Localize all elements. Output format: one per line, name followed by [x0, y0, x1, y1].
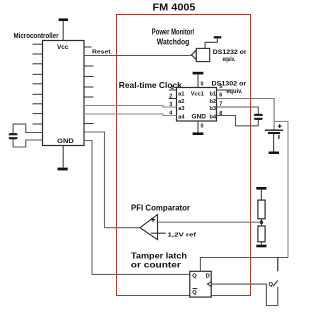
svg-text:Vcc: Vcc: [57, 44, 69, 51]
watchdog U2 DS1232 gate box: [196, 48, 209, 61]
wire U3 Vcc1 lead (pin 0): [197, 74, 199, 87]
wire R2 to ground: [260, 242, 262, 245]
U3 pin 5 stub: [217, 89, 232, 91]
wire comparator + input to divider node: [158, 221, 262, 223]
svg-text:a1: a1: [178, 91, 184, 97]
svg-text:Power Monitor/: Power Monitor/: [152, 27, 195, 37]
svg-text:GND: GND: [192, 114, 207, 120]
U5 clock triangle: [207, 282, 211, 287]
svg-text:DS1232 or: DS1232 or: [213, 50, 248, 56]
ground bar (U3 bottom): [193, 132, 204, 135]
wire U1 to flip-flop Q: [84, 141, 190, 275]
crystal Y1 wire (bottom lead to U1): [13, 139, 42, 147]
wire comparator output to U1: [84, 132, 140, 228]
battery BT1 bottom plate: [268, 132, 280, 134]
svg-text:b4: b4: [210, 114, 217, 120]
svg-text:Q: Q: [269, 282, 274, 288]
Qbar overline: [193, 288, 198, 290]
U3 pin 1 stub: [169, 89, 177, 91]
wire U2 power lead: [205, 38, 217, 48]
crystal Y1 wire (top lead to U1): [13, 124, 42, 133]
wire Vcc lead: [62, 21, 64, 41]
wire U1 to U3 pin 4: [84, 114, 177, 116]
wire rail to tamper switch top: [277, 258, 279, 272]
svg-text:PFI Comparator: PFI Comparator: [131, 203, 191, 213]
wire battery + rail to right side: [274, 121, 288, 257]
tamper switch blade: [273, 281, 278, 287]
ground bar (U1): [58, 168, 68, 171]
svg-text:1,2V ref: 1,2V ref: [168, 232, 197, 238]
power bar Vcc (U1): [59, 18, 68, 21]
power bar (divider Vcc): [256, 187, 266, 190]
wire U5 D input to battery rail: [200, 258, 288, 272]
svg-text:FM 4005: FM 4005: [153, 3, 196, 14]
wire R1 to node: [260, 219, 262, 226]
svg-text:a4: a4: [178, 114, 185, 120]
battery BT1 top plate: [265, 130, 283, 131]
flip-flop U5 box: [190, 271, 211, 297]
wire Reset (U1 to U2): [84, 55, 192, 57]
wire U5 clock to tamper switch: [211, 284, 278, 305]
svg-text:0: 0: [201, 123, 204, 129]
svg-text:b1: b1: [210, 91, 217, 97]
svg-text:b3: b3: [210, 106, 217, 112]
power bar (U2): [214, 36, 222, 38]
power bar (U3 top): [193, 72, 204, 75]
svg-text:Reset: Reset: [92, 50, 111, 56]
wire U3 pin 7 to crystal Y2: [217, 107, 259, 114]
wire GND lead: [62, 146, 64, 168]
svg-text:or counter: or counter: [131, 259, 182, 269]
wire U3 GND lead (pin 0): [197, 121, 199, 132]
svg-text:a3: a3: [178, 106, 184, 112]
battery BT1 plus sign: [278, 124, 282, 128]
svg-text:Q: Q: [192, 290, 197, 296]
svg-text:5: 5: [219, 84, 222, 90]
U3 pin 2 stub: [169, 98, 177, 100]
comparator U4 triangle: [140, 215, 158, 240]
svg-text:D: D: [206, 274, 210, 280]
svg-text:DS1302 or: DS1302 or: [212, 81, 247, 87]
crystal Y1 body: [8, 133, 19, 139]
comparator minus input line: [151, 232, 166, 234]
resistor R2: [258, 226, 265, 242]
wire U1 to U3 pin 3: [84, 106, 177, 108]
svg-text:1: 1: [171, 85, 174, 91]
wire divider Vcc lead: [260, 190, 262, 201]
resistor R1: [258, 200, 265, 219]
crystal Y2 body: [253, 114, 264, 120]
svg-text:equiv.: equiv.: [223, 57, 236, 63]
wire U3 pin 6 to battery +: [217, 99, 275, 130]
ground bar (battery): [269, 152, 279, 155]
svg-text:7: 7: [219, 101, 222, 107]
wire battery to ground: [273, 134, 275, 152]
RTC U3 box: [177, 88, 217, 122]
battery BT1 minus tick: [278, 135, 279, 139]
wire U3 pin 8 to crystal Y2: [217, 116, 259, 126]
svg-text:Microcontroller: Microcontroller: [14, 33, 59, 40]
comparator plus marking: [151, 218, 155, 222]
U1 right pin stubs: [84, 47, 94, 124]
microcontroller U1 box: [43, 41, 85, 146]
U1 left pin stubs: [33, 44, 43, 124]
svg-text:a2: a2: [178, 99, 184, 105]
svg-text:GND: GND: [57, 138, 74, 145]
svg-text:b2: b2: [210, 99, 217, 105]
node junction dot: [260, 221, 263, 224]
svg-text:Vcc1: Vcc1: [191, 91, 204, 97]
svg-text:6: 6: [219, 93, 222, 99]
ground bar (divider): [256, 245, 266, 248]
watchdog U2 DS1232 gate triangle: [192, 50, 197, 60]
svg-text:2: 2: [169, 94, 172, 100]
svg-text:Watchdog: Watchdog: [157, 37, 190, 47]
FM4005 module boundary box: [117, 15, 251, 296]
svg-text:Q: Q: [192, 274, 197, 280]
svg-text:0: 0: [201, 82, 204, 88]
